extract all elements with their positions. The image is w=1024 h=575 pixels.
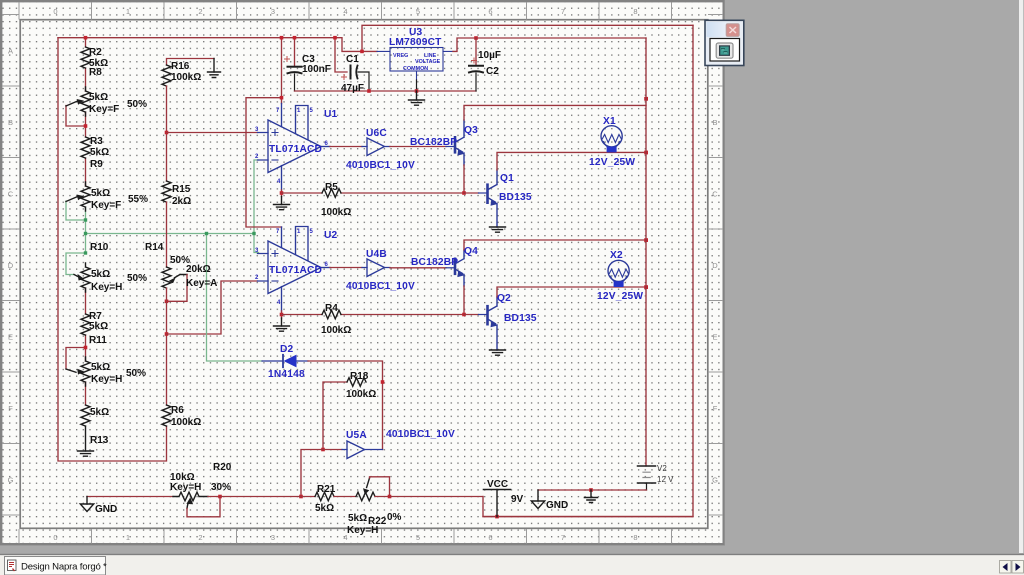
wire R22 wiper loop xyxy=(370,477,390,497)
svg-text:G: G xyxy=(712,476,718,485)
svg-text:47µF: 47µF xyxy=(341,83,364,94)
svg-text:30%: 30% xyxy=(211,482,231,493)
svg-text:Key=H: Key=H xyxy=(170,482,201,493)
resistor R4 xyxy=(322,310,341,319)
svg-text:8: 8 xyxy=(633,7,637,16)
svg-text:R6: R6 xyxy=(171,405,184,416)
svg-text:C: C xyxy=(8,190,14,199)
wire U1 pin7 supply drop xyxy=(281,38,283,104)
svg-text:5kΩ: 5kΩ xyxy=(90,407,109,418)
wire battery minus to grounds xyxy=(538,489,647,491)
svg-text:BD135: BD135 xyxy=(504,313,537,324)
svg-text:5kΩ: 5kΩ xyxy=(91,362,110,373)
svg-text:R16: R16 xyxy=(171,61,190,72)
svg-text:2: 2 xyxy=(198,7,202,16)
svg-text:0: 0 xyxy=(53,7,57,16)
ground below U2 xyxy=(274,318,290,331)
svg-text:5kΩ: 5kΩ xyxy=(90,147,109,158)
svg-text:3: 3 xyxy=(271,533,275,542)
svg-text:4010BC1_10V: 4010BC1_10V xyxy=(346,281,415,292)
potentiometer R20 xyxy=(173,492,208,508)
wire Q4 emitter to Q2 base node xyxy=(463,286,465,315)
diode D2 1N4148 xyxy=(262,355,308,368)
svg-text:R13: R13 xyxy=(90,435,109,446)
transistor Q1 BD135 xyxy=(479,170,498,227)
svg-text:R9: R9 xyxy=(90,159,103,170)
svg-text:Key=A: Key=A xyxy=(186,278,217,289)
svg-text:VREG: VREG xyxy=(393,53,408,59)
node pin7 branch junction xyxy=(280,96,284,100)
svg-text:2: 2 xyxy=(198,533,202,542)
potentiometer R8 xyxy=(66,87,90,116)
capacitor C1 xyxy=(335,38,369,91)
svg-text:Key=H: Key=H xyxy=(91,282,122,293)
svg-text:B: B xyxy=(8,118,13,127)
svg-text:C1: C1 xyxy=(346,54,359,65)
white schematic sheet xyxy=(0,0,725,545)
wire U6C output to Q3 base xyxy=(390,146,446,148)
svg-text:5kΩ: 5kΩ xyxy=(89,321,108,332)
wire R16 top to ground xyxy=(167,59,215,66)
wire bus R20 to R21 xyxy=(220,496,315,498)
wire green vertical U1- to U2+ xyxy=(254,160,259,253)
resistor R21 xyxy=(315,492,334,501)
svg-text:100kΩ: 100kΩ xyxy=(346,389,376,400)
svg-text:6: 6 xyxy=(488,533,492,542)
svg-text:R11: R11 xyxy=(89,335,107,346)
node green net left junction xyxy=(84,232,87,235)
ground below R13 xyxy=(78,426,94,456)
wire green net horizontal xyxy=(86,233,255,235)
svg-text:C2: C2 xyxy=(486,66,499,77)
wire R4 row xyxy=(282,314,465,316)
svg-text:Key=H: Key=H xyxy=(91,374,122,385)
svg-text:12 V: 12 V xyxy=(657,475,674,484)
wire R2 chain column segments xyxy=(85,38,87,405)
wire R18 left link down to U5A input xyxy=(323,382,347,450)
transistor Q2 BD135 xyxy=(479,297,498,350)
svg-text:Q1: Q1 xyxy=(500,173,514,184)
resistor R5 xyxy=(322,189,341,198)
ground below Q2 xyxy=(490,350,506,355)
svg-text:6: 6 xyxy=(488,7,492,16)
right scroll light band xyxy=(1019,0,1023,553)
wire green vertical to diode D2 xyxy=(207,234,263,362)
tab document icon xyxy=(8,560,17,571)
node C2 feed junction xyxy=(474,36,478,40)
svg-text:50%: 50% xyxy=(127,273,147,284)
svg-text:5kΩ: 5kΩ xyxy=(89,92,108,103)
node VCC stem junction xyxy=(495,515,499,519)
wire U2 pin4 to ground node xyxy=(281,311,283,318)
wire U1 output to buffer U6C xyxy=(330,146,362,148)
svg-text:Design Napra forgó *: Design Napra forgó * xyxy=(21,562,107,573)
svg-text:12V_25W: 12V_25W xyxy=(589,157,635,168)
svg-text:5kΩ: 5kΩ xyxy=(91,269,110,280)
resistor R6 xyxy=(162,405,171,426)
svg-text:1: 1 xyxy=(126,533,130,542)
wire bus R22 to VCC step xyxy=(390,496,484,498)
node rail drop junction xyxy=(280,36,284,40)
ground below U1 xyxy=(274,197,290,210)
buffer U6C xyxy=(362,138,390,156)
node R22 loop junction xyxy=(388,495,392,499)
gray strip below sheet xyxy=(0,546,1024,555)
dot grid xyxy=(2,2,723,544)
wire U3 output up to lamp feed rail xyxy=(453,38,646,51)
scrollbar right arrow button xyxy=(1012,561,1024,574)
voltage regulator U3 xyxy=(377,48,453,81)
sheet outer border xyxy=(1,1,724,544)
ground below U3 common xyxy=(409,91,425,105)
svg-text:10µF: 10µF xyxy=(478,50,501,61)
node mid ground junction xyxy=(589,488,593,492)
svg-text:U5A: U5A xyxy=(346,430,367,441)
sheet inner border xyxy=(20,20,708,529)
svg-text:R2: R2 xyxy=(89,47,102,58)
resistor R7 xyxy=(81,314,90,335)
svg-text:Q2: Q2 xyxy=(497,293,511,304)
svg-text:R15: R15 xyxy=(172,184,191,195)
svg-text:R3: R3 xyxy=(90,136,103,147)
wire lamp supply vertical xyxy=(645,38,647,466)
node bottom bus tap xyxy=(299,495,303,499)
resistor R18 xyxy=(347,378,366,387)
svg-text:Q4: Q4 xyxy=(464,246,478,257)
svg-text:8: 8 xyxy=(633,533,637,542)
svg-text:X1: X1 xyxy=(603,116,616,127)
svg-text:100nF: 100nF xyxy=(302,64,331,75)
node U2 pin4 junction xyxy=(280,313,284,317)
wire R20 wiper loop xyxy=(187,497,220,517)
tab bar xyxy=(0,555,1024,575)
svg-text:X2: X2 xyxy=(610,250,623,261)
svg-text:GND: GND xyxy=(95,504,117,515)
wire tap to U2 inverting input xyxy=(167,281,258,334)
node lamp X1 junction xyxy=(644,151,648,155)
svg-text:3: 3 xyxy=(271,7,275,16)
node supply-VREG junction xyxy=(360,50,364,54)
svg-text:0: 0 xyxy=(53,533,57,542)
svg-text:5kΩ: 5kΩ xyxy=(91,188,110,199)
node R10 loop junction (green) xyxy=(84,251,87,254)
svg-text:9V: 9V xyxy=(511,494,524,505)
svg-text:C: C xyxy=(712,190,718,199)
svg-text:E: E xyxy=(8,333,13,342)
node rail-R2 junction xyxy=(84,36,88,40)
floating instrument mini-toolbar xyxy=(705,20,744,65)
node C3 rail junction xyxy=(293,36,297,40)
node U1 pin4 junction xyxy=(280,191,284,195)
node green tee at x206 xyxy=(205,232,208,235)
svg-text:R18: R18 xyxy=(350,371,369,382)
capacitor C2 xyxy=(469,38,483,91)
svg-text:D: D xyxy=(8,261,14,270)
potentiometer R11 xyxy=(66,357,90,386)
node R9 loop junction (green) xyxy=(84,218,87,221)
svg-text:VOLTAGE: VOLTAGE xyxy=(415,59,441,65)
resistor R3 xyxy=(81,137,90,158)
svg-text:R8: R8 xyxy=(89,67,102,78)
node lamp feed rail junction xyxy=(644,97,648,101)
op-amp U2 TL071ACD xyxy=(258,227,331,312)
svg-text:R14: R14 xyxy=(145,242,164,253)
wire VCC bus bottom segment xyxy=(483,516,693,518)
svg-text:TL071ACD: TL071ACD xyxy=(269,265,322,276)
wire R8 wiper loop xyxy=(66,106,86,127)
node Q4 feed junction xyxy=(644,238,648,242)
potentiometer R10 xyxy=(74,263,90,292)
svg-text:BD135: BD135 xyxy=(499,192,532,203)
node Q1 base junction xyxy=(462,191,466,195)
wire GND stub to R20 xyxy=(87,496,173,498)
wire tap to U1 noninverting input xyxy=(167,132,258,134)
svg-text:E: E xyxy=(712,333,717,342)
wire upper supply to VREG input vertical xyxy=(362,25,693,51)
potentiometer R22 xyxy=(356,478,375,501)
svg-text:R20: R20 xyxy=(213,462,232,473)
svg-text:7: 7 xyxy=(561,7,565,16)
wire U4B output to Q4 base xyxy=(390,267,446,269)
canvas bottom edge line xyxy=(0,554,1024,555)
node U1+ tap xyxy=(165,131,169,135)
svg-text:5: 5 xyxy=(416,7,420,16)
wire Q2 collector to lamp X2 xyxy=(497,287,646,297)
svg-text:R5: R5 xyxy=(325,182,338,193)
svg-text:D2: D2 xyxy=(280,344,294,355)
svg-text:U2: U2 xyxy=(324,230,338,241)
node R20 loop junction xyxy=(218,495,222,499)
svg-text:100kΩ: 100kΩ xyxy=(171,72,201,83)
svg-text:TL071ACD: TL071ACD xyxy=(269,144,322,155)
wire Q1 collector to lamp X1 xyxy=(497,152,646,170)
svg-text:V2: V2 xyxy=(657,464,667,473)
svg-text:0%: 0% xyxy=(387,512,402,523)
svg-text:Q3: Q3 xyxy=(464,125,478,136)
svg-text:G: G xyxy=(8,476,14,485)
power flag VCC 9V xyxy=(484,490,511,517)
wire D2 anode to R18 column xyxy=(308,361,383,450)
wire Q4 collector feed xyxy=(464,240,646,250)
svg-text:4010BC1_10V: 4010BC1_10V xyxy=(386,429,455,440)
svg-text:50%: 50% xyxy=(126,368,146,379)
svg-text:1: 1 xyxy=(126,7,130,16)
svg-text:Key=H: Key=H xyxy=(347,525,378,536)
resistor R2 xyxy=(81,47,90,68)
node C1 bottom bus junction xyxy=(367,89,371,93)
svg-text:F: F xyxy=(713,404,718,413)
svg-text:20kΩ: 20kΩ xyxy=(186,264,211,275)
resistor R13 xyxy=(81,405,90,426)
svg-text:1N4148: 1N4148 xyxy=(268,369,305,380)
svg-text:D: D xyxy=(712,261,718,270)
svg-text:100kΩ: 100kΩ xyxy=(321,207,351,218)
svg-text:R10: R10 xyxy=(90,242,109,253)
svg-text:5kΩ: 5kΩ xyxy=(348,513,367,524)
svg-text:BC182BP: BC182BP xyxy=(411,257,458,268)
svg-text:2kΩ: 2kΩ xyxy=(172,196,191,207)
svg-text:5kΩ: 5kΩ xyxy=(315,503,334,514)
wire node to Q2 base xyxy=(464,314,479,316)
lamp X2 xyxy=(608,260,629,287)
svg-text:B: B xyxy=(712,118,717,127)
ground right of R16 xyxy=(208,59,221,78)
wire left outer loop xyxy=(58,38,167,461)
svg-text:F: F xyxy=(8,404,13,413)
ground bars at battery minus xyxy=(584,490,597,503)
svg-text:100kΩ: 100kΩ xyxy=(321,325,351,336)
svg-text:R4: R4 xyxy=(325,303,338,314)
potentiometer R14 xyxy=(162,267,187,288)
node C1 rail junction xyxy=(333,36,337,40)
svg-text:4: 4 xyxy=(343,7,347,16)
node green tee at x254 xyxy=(252,232,255,235)
ground flag GND mid xyxy=(531,490,544,509)
lamp X1 xyxy=(601,126,622,153)
op-amp U1 TL071ACD xyxy=(258,104,331,191)
node U2- tap xyxy=(165,332,169,336)
node R18 right junction xyxy=(381,380,385,384)
wire branch to U2 pin7 xyxy=(246,98,282,227)
wire R14 to R6 with tap to U2 inverting input xyxy=(166,288,168,405)
svg-text:Key=F: Key=F xyxy=(89,104,119,115)
battery V2 xyxy=(638,466,656,490)
node U5A input junction xyxy=(321,448,325,452)
svg-text:12V_25W: 12V_25W xyxy=(597,291,643,302)
resistor R15 xyxy=(162,181,171,202)
wire R11 wiper loop xyxy=(66,348,86,369)
svg-text:COMMON: COMMON xyxy=(403,66,428,72)
svg-text:R21: R21 xyxy=(317,484,336,495)
wire green chain segment R9 to R10 xyxy=(85,207,87,253)
wire Q3 emitter to Q1 base node xyxy=(463,165,465,193)
wire Q3 collector to lamp feed xyxy=(464,105,646,120)
svg-text:Key=F: Key=F xyxy=(91,200,121,211)
wire node to Q1 base xyxy=(464,192,479,194)
svg-text:100kΩ: 100kΩ xyxy=(171,417,201,428)
svg-text:GND: GND xyxy=(546,500,568,511)
buffer U4B xyxy=(362,259,390,277)
transistor Q4 BC182BP xyxy=(446,250,465,286)
ground below Q1 xyxy=(490,227,506,232)
svg-text:U1: U1 xyxy=(324,109,338,120)
wire R15 to R14 xyxy=(166,202,168,267)
svg-text:LM7809CT: LM7809CT xyxy=(389,37,442,48)
capacitor C3 xyxy=(285,38,302,91)
node R8 loop junction xyxy=(84,124,88,128)
buffer U5A xyxy=(342,441,383,459)
ground flag GND left xyxy=(80,497,93,512)
svg-text:U6C: U6C xyxy=(366,128,387,139)
wire bus R21 to R22 xyxy=(334,496,356,498)
resistor R16 xyxy=(162,65,171,86)
wire U3 common down to bus xyxy=(416,80,418,91)
svg-text:U4B: U4B xyxy=(366,249,387,260)
wire R16-R15 chain with tap to U1+ xyxy=(166,86,168,181)
node U3 common bus junction xyxy=(415,89,419,93)
svg-text:5: 5 xyxy=(416,533,420,542)
svg-text:55%: 55% xyxy=(128,194,148,205)
svg-text:A: A xyxy=(8,47,13,56)
potentiometer R9 xyxy=(66,182,90,211)
scrollbar left arrow button xyxy=(1000,561,1012,574)
svg-text:4010BC1_10V: 4010BC1_10V xyxy=(346,160,415,171)
svg-text:VCC: VCC xyxy=(487,479,508,490)
wire U2 output to buffer U4B xyxy=(330,267,362,269)
wire top supply rail xyxy=(58,38,377,52)
wire U5A input row and tap to bottom bus xyxy=(301,450,342,497)
wire capacitor bottom bus xyxy=(295,90,477,92)
wire R9 wiper loop (green) xyxy=(66,201,86,220)
wire R14 wiper loop xyxy=(167,275,188,302)
transistor Q3 BC182BP xyxy=(446,120,465,165)
svg-text:BC182BP: BC182BP xyxy=(410,137,457,148)
svg-text:7: 7 xyxy=(561,533,565,542)
wire R5 row xyxy=(282,192,465,194)
node R11 loop junction xyxy=(84,346,88,350)
sheet tab xyxy=(5,557,108,575)
node R14 loop junction xyxy=(165,300,169,304)
svg-text:50%: 50% xyxy=(127,99,147,110)
node Q2 base junction xyxy=(462,313,466,317)
node lamp X2 junction xyxy=(644,285,648,289)
wire right outer loop down to bottom VCC bus xyxy=(483,25,693,516)
wire U1 pin4 to ground node xyxy=(281,190,283,197)
wire R10 wiper loop (green) xyxy=(66,253,86,275)
